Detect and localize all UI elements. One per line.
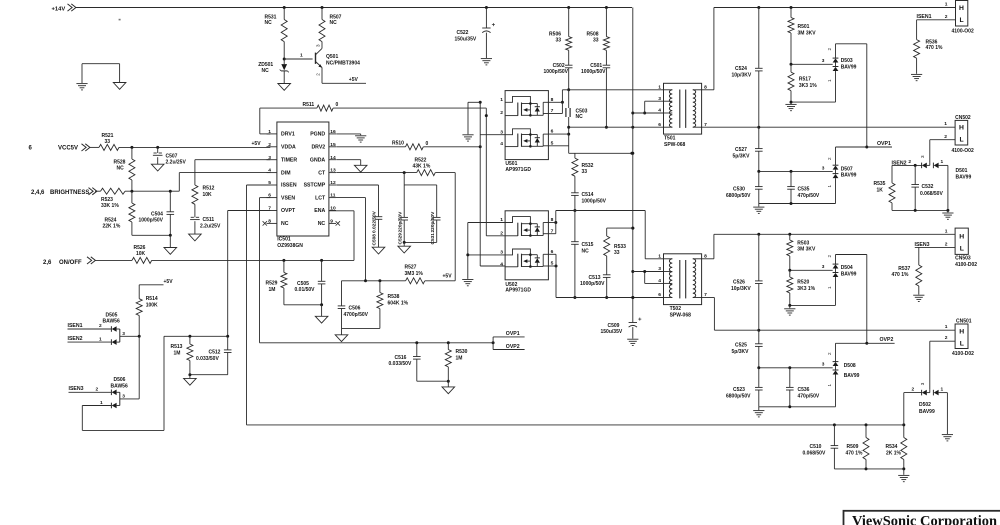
svg-text:DRV2: DRV2: [311, 145, 325, 151]
svg-text:604K 1%: 604K 1%: [388, 301, 409, 307]
wire CT pin 13: [336, 171, 417, 174]
wire sense network bottom: [834, 467, 905, 474]
net label ISEN2 line: [892, 159, 922, 167]
svg-text:150u/35V: 150u/35V: [601, 329, 623, 335]
svg-text:3: 3: [822, 362, 825, 368]
svg-text:C513: C513: [589, 275, 601, 281]
wire CT to R527 riser: [435, 173, 455, 281]
capacitor C504: [139, 191, 175, 235]
svg-text:10K: 10K: [203, 192, 213, 198]
svg-text:2: 2: [827, 157, 832, 160]
svg-text:2: 2: [945, 335, 948, 341]
svg-text:8: 8: [268, 219, 271, 225]
svg-text:2,6: 2,6: [43, 260, 52, 266]
connector CN503: [945, 228, 978, 268]
svg-text:6800p/50V: 6800p/50V: [726, 394, 751, 400]
svg-text:BAV99: BAV99: [841, 65, 857, 71]
svg-text:L: L: [960, 17, 964, 24]
svg-text:10: 10: [330, 206, 336, 212]
svg-text:T502: T502: [670, 306, 682, 312]
wire T501 pin7 line to CN502: [702, 126, 956, 129]
svg-text:1: 1: [300, 53, 303, 59]
svg-text:L: L: [960, 246, 964, 253]
svg-text:220p/50V: 220p/50V: [397, 211, 403, 233]
svg-text:R537: R537: [898, 266, 910, 272]
wire U502 drain1 rail: [548, 211, 645, 234]
svg-text:3: 3: [920, 155, 925, 158]
wire DIM to brightness node: [179, 173, 270, 192]
ground chassis (C507): [151, 164, 164, 171]
svg-text:1000p/50V: 1000p/50V: [580, 281, 605, 287]
wire R532 top rail: [569, 152, 634, 155]
svg-text:C535: C535: [798, 186, 810, 192]
svg-text:100K: 100K: [146, 303, 158, 309]
wire D502 pin2 from sense rail: [904, 386, 922, 425]
svg-text:R503: R503: [797, 240, 809, 246]
svg-text:2K 1%: 2K 1%: [886, 451, 902, 457]
svg-text:2: 2: [945, 14, 948, 20]
ground earth (PGND): [355, 136, 366, 142]
svg-text:BAV99: BAV99: [841, 271, 857, 277]
resistor R501: [788, 8, 816, 65]
svg-text:SSTCMP: SSTCMP: [304, 183, 326, 189]
no-connect X pin 8: [263, 221, 267, 225]
wire DRV2 to U501/U502 gates: [423, 101, 505, 266]
svg-text:3M 3KV: 3M 3KV: [797, 247, 816, 253]
svg-text:4100-O02: 4100-O02: [952, 29, 974, 35]
svg-text:OVP2: OVP2: [506, 344, 520, 350]
svg-text:SPW-068: SPW-068: [670, 312, 692, 318]
wire DRV1 from pin 1: [260, 108, 317, 134]
svg-text:C514: C514: [582, 192, 594, 198]
svg-text:9: 9: [330, 219, 333, 225]
svg-text:15: 15: [330, 142, 336, 148]
svg-text:4700p/50V: 4700p/50V: [344, 312, 369, 318]
svg-text:BRIGHTNESS: BRIGHTNESS: [50, 190, 89, 196]
svg-text:4100-D02: 4100-D02: [955, 262, 977, 268]
svg-text:IC501: IC501: [277, 236, 291, 242]
wire ISSEN trunk: [247, 185, 271, 425]
svg-text:GNDA: GNDA: [310, 157, 326, 163]
svg-text:3K3 1%: 3K3 1%: [797, 286, 815, 292]
svg-text:ON/OFF: ON/OFF: [59, 260, 82, 266]
resistor R512: [192, 160, 215, 218]
svg-text:C510: C510: [810, 444, 822, 450]
resistor R528: [114, 147, 135, 191]
svg-text:C524: C524: [735, 66, 747, 72]
svg-text:C504: C504: [151, 211, 163, 217]
svg-text:1: 1: [658, 84, 661, 90]
capacitor C525: [732, 330, 763, 368]
svg-text:470 1%: 470 1%: [892, 272, 910, 278]
svg-text:1000p/50V: 1000p/50V: [581, 69, 606, 75]
wire U501 drain jog: [548, 90, 568, 104]
svg-text:OVP2: OVP2: [880, 337, 894, 343]
svg-text:C512: C512: [209, 349, 221, 355]
wire D506 anode loop: [82, 336, 164, 430]
svg-text:C527: C527: [735, 147, 747, 153]
svg-text:470 1%: 470 1%: [926, 45, 944, 51]
ground chassis (C506): [335, 335, 348, 342]
resistor R510: [392, 141, 429, 150]
wire OVPT trunk: [228, 211, 271, 337]
svg-text:1M: 1M: [456, 356, 463, 362]
svg-text:R530: R530: [456, 349, 468, 355]
connector CN501: [945, 318, 974, 357]
svg-text:R520: R520: [797, 280, 809, 286]
svg-text:2: 2: [500, 230, 503, 236]
svg-text:3: 3: [316, 44, 321, 47]
svg-text:3M 3KV: 3M 3KV: [798, 30, 817, 36]
svg-text:C516: C516: [395, 355, 407, 361]
svg-text:2: 2: [827, 48, 832, 51]
svg-text:ISEN1: ISEN1: [917, 14, 932, 20]
wire LCT node rail: [342, 279, 406, 306]
svg-text:5p/3KV: 5p/3KV: [732, 349, 750, 355]
svg-text:10p/3KV: 10p/3KV: [731, 286, 751, 292]
capacitor C526: [731, 234, 763, 330]
wire D501 pin1 drop: [947, 165, 949, 210]
svg-text:2: 2: [500, 110, 503, 116]
wire HV top line (T501 sec to CN): [714, 6, 956, 9]
net label ON/OFF input: [43, 257, 95, 266]
svg-text:ViewSonic Corporation: ViewSonic Corporation: [852, 514, 998, 525]
resistor R517: [788, 64, 817, 104]
svg-text:+14V: +14V: [52, 6, 66, 12]
wire D508 pin1 to cap bottom: [759, 375, 836, 411]
ground earth (U501 sources): [462, 135, 473, 141]
net label OVP1: [867, 141, 892, 147]
op-amp U IC501 OZ9938GN controller: [267, 122, 337, 249]
svg-text:1: 1: [99, 336, 102, 342]
wire T502 pin7 riser to CN501 line: [702, 298, 715, 331]
svg-text:NC: NC: [265, 20, 273, 26]
svg-text:R533: R533: [614, 244, 626, 250]
wire R513-C512 bottom: [188, 373, 227, 378]
wire TIMER to R512: [195, 159, 270, 161]
svg-text:1: 1: [941, 386, 944, 392]
svg-text:2.2u/25V: 2.2u/25V: [166, 160, 187, 166]
diode D506 BAW56: [69, 377, 140, 408]
svg-text:1: 1: [500, 97, 503, 103]
svg-text:C501: C501: [590, 63, 602, 69]
svg-text:L: L: [960, 137, 964, 144]
svg-text:TIMER: TIMER: [281, 157, 297, 163]
net label OVP1 stub: [493, 331, 524, 343]
ground chassis (ZD501): [278, 84, 291, 91]
capacitor C524: [732, 8, 763, 128]
svg-text:1: 1: [945, 228, 948, 234]
resistor R520: [787, 270, 816, 305]
resistor R526: [132, 245, 152, 264]
capacitor C505: [295, 260, 326, 304]
svg-text:3: 3: [500, 129, 503, 135]
wire BRIGHTNESS to R523: [95, 190, 101, 192]
svg-text:1M: 1M: [269, 287, 276, 293]
ground earth (U502 sources): [462, 280, 473, 286]
svg-text:14: 14: [330, 155, 336, 161]
svg-text:1000p/50V: 1000p/50V: [544, 69, 569, 75]
wire R527 to +5V riser: [425, 273, 455, 280]
svg-text:R513: R513: [171, 344, 183, 350]
capacitor C502: [544, 63, 573, 91]
svg-text:3: 3: [822, 58, 825, 64]
wire VCC5V rail to VDDA: [119, 141, 270, 149]
resistor R514: [136, 296, 158, 336]
wire D502 pin1 drop: [946, 393, 948, 434]
svg-text:3: 3: [122, 331, 125, 337]
svg-text:33: 33: [555, 38, 561, 44]
wire T501 pin6 line: [569, 126, 664, 129]
svg-text:Q501: Q501: [326, 54, 338, 60]
diode D503 BAV99: [827, 48, 857, 83]
net label VCC5V input: [29, 144, 90, 152]
svg-text:13: 13: [330, 168, 336, 174]
svg-text:D508: D508: [844, 363, 856, 369]
no-connect X pin 9: [336, 221, 340, 225]
transistor Q501: [316, 42, 361, 84]
resistor R507: [319, 8, 342, 42]
wire CN502 L to D501 tap: [920, 140, 955, 163]
svg-text:NC: NC: [281, 221, 289, 227]
capacitor C501: [581, 63, 610, 129]
resistor R511: [303, 102, 339, 111]
svg-text:0: 0: [336, 102, 339, 108]
transistor U502 AP9971GD dual MOSFET: [500, 211, 553, 294]
svg-text:NC: NC: [117, 165, 125, 171]
wire ISSEN sense rail: [247, 423, 906, 426]
svg-text:C511: C511: [203, 217, 215, 223]
wire C506-R538 bottom: [342, 328, 380, 334]
resistor R532: [572, 153, 594, 193]
svg-text:NC: NC: [318, 221, 326, 227]
ground earth (R536): [911, 74, 922, 80]
svg-text:470 1%: 470 1%: [846, 451, 864, 457]
svg-text:470p/50V: 470p/50V: [798, 193, 820, 199]
connector CN504 output (top): [945, 1, 974, 35]
node base Q501: [283, 53, 313, 61]
svg-text:4100-D02: 4100-D02: [952, 351, 974, 357]
svg-text:33: 33: [105, 139, 111, 145]
svg-text:ZD501: ZD501: [258, 62, 273, 68]
wire D508 common: [757, 362, 832, 370]
svg-text:3M3 1%: 3M3 1%: [405, 271, 424, 277]
connector CN502: [944, 115, 974, 154]
net label ISEN3 line: [915, 242, 956, 248]
svg-text:33: 33: [582, 169, 588, 175]
svg-text:4: 4: [500, 141, 503, 147]
capacitor C514: [571, 192, 607, 212]
wire D508 pin2 to OVP2 node: [836, 342, 869, 362]
svg-text:2: 2: [316, 73, 321, 76]
svg-text:3: 3: [822, 165, 825, 171]
wire T501 pin8 riser: [702, 8, 714, 90]
wire R533 top rail: [607, 227, 635, 230]
capacitor C511: [190, 217, 221, 234]
net label +5V pullup: [139, 279, 173, 299]
ground chassis (C504): [164, 248, 177, 255]
wire C516-R530 bottom: [417, 380, 450, 387]
svg-text:1: 1: [827, 286, 832, 289]
svg-text:D501: D501: [956, 168, 968, 174]
svg-text:C530: C530: [733, 186, 745, 192]
svg-text:0: 0: [426, 141, 429, 147]
svg-text:2.2u/25V: 2.2u/25V: [200, 223, 221, 229]
resistor R524: [103, 191, 135, 235]
wire ISEN2 bottom rail: [892, 209, 949, 213]
wire U502 drain2 column: [548, 254, 663, 299]
resistor R529: [266, 260, 287, 304]
zener diode ZD501: [258, 59, 289, 84]
svg-text:10p/3KV: 10p/3KV: [732, 72, 752, 78]
svg-text:150u/35V: 150u/35V: [455, 36, 477, 42]
svg-text:R511: R511: [303, 102, 315, 108]
svg-text:C529: C529: [397, 233, 403, 245]
svg-text:R501: R501: [798, 24, 810, 30]
wire D503 pin1 to ground: [790, 71, 836, 104]
net label +14V input: [52, 4, 76, 13]
svg-text:VDDA: VDDA: [281, 145, 296, 151]
resistor R509: [846, 425, 870, 469]
svg-text:1: 1: [658, 253, 661, 259]
svg-text:2,4,6: 2,4,6: [31, 190, 45, 196]
ground chassis (C511): [189, 234, 202, 241]
wire SSTCMP pin 12: [336, 185, 378, 217]
capacitor C522: [455, 8, 495, 59]
wire D504 common: [788, 264, 832, 272]
wire CN501 H line: [714, 329, 955, 332]
wire +14V center column: [631, 112, 634, 323]
svg-text:AP9971GD: AP9971GD: [505, 167, 531, 173]
svg-text:1M: 1M: [174, 351, 181, 357]
ground earth (R537): [913, 295, 924, 301]
svg-text:+5V: +5V: [349, 77, 359, 83]
svg-text:SPW-068: SPW-068: [664, 142, 686, 148]
capacitor C527: [733, 127, 763, 171]
resistor R513: [171, 336, 193, 374]
svg-text:LCT: LCT: [315, 195, 326, 201]
transistor U501 AP9971GD dual MOSFET: [500, 91, 553, 173]
ground earth (R517): [785, 104, 796, 110]
wire HV mid line (T502 sec to CN503): [714, 233, 955, 236]
svg-text:220p/50V: 220p/50V: [430, 211, 436, 233]
svg-text:11: 11: [330, 193, 335, 199]
ground earth (C509): [627, 339, 638, 345]
wire VCC5V to R521: [90, 146, 99, 148]
svg-text:BAV99: BAV99: [844, 373, 860, 379]
svg-text:T501: T501: [664, 136, 676, 142]
svg-text:2: 2: [268, 142, 271, 148]
svg-text:0.022/50V: 0.022/50V: [372, 210, 378, 233]
wire D507 pin2 to OVP1 node: [836, 146, 869, 166]
net label BRIGHTNESS input: [31, 188, 97, 197]
svg-text:ISEN2: ISEN2: [68, 336, 83, 342]
capacitor C510: [803, 425, 839, 469]
svg-text:1: 1: [945, 324, 948, 330]
svg-text:OZ9938GN: OZ9938GN: [277, 243, 303, 249]
svg-text:OVP1: OVP1: [877, 141, 891, 147]
title block box: [844, 511, 1000, 525]
ground earth (bracket left): [76, 84, 87, 90]
resistor R522: [413, 157, 436, 175]
ground earth (R534): [898, 475, 909, 481]
ground earth (D502): [942, 435, 953, 441]
capacitor C535: [787, 171, 820, 203]
svg-text:H: H: [959, 5, 964, 12]
resistor R508: [587, 8, 610, 66]
svg-text:4100-O02: 4100-O02: [952, 148, 974, 154]
svg-text:2: 2: [96, 387, 99, 393]
resistor R535: [874, 165, 896, 210]
wire T501 pin3-4 tie: [633, 101, 664, 114]
svg-text:470p/50V: 470p/50V: [798, 394, 820, 400]
ground earth (C522): [481, 59, 492, 65]
svg-text:33: 33: [614, 250, 620, 256]
svg-text:NC: NC: [330, 20, 338, 26]
svg-text:R512: R512: [203, 185, 215, 191]
svg-text:3: 3: [122, 394, 125, 400]
svg-text:1: 1: [827, 79, 832, 82]
svg-text:5p/3KV: 5p/3KV: [733, 153, 751, 159]
resistor R527: [405, 265, 425, 284]
svg-text:C508: C508: [372, 234, 378, 246]
resistor R531: [265, 8, 288, 60]
resistor R536: [914, 20, 943, 74]
svg-text:R534: R534: [886, 444, 898, 450]
svg-text:0.033/50V: 0.033/50V: [389, 361, 412, 367]
transformer T501 SPW-068: [658, 83, 707, 148]
svg-text:0.033/50V: 0.033/50V: [196, 356, 219, 362]
svg-text:1K: 1K: [877, 188, 884, 194]
wire U501 source ground riser: [468, 102, 480, 134]
svg-text:12: 12: [330, 180, 336, 186]
capacitor C531: [430, 211, 441, 245]
svg-text:2: 2: [944, 134, 947, 140]
svg-text:BAV99: BAV99: [841, 173, 857, 179]
svg-text:R517: R517: [799, 77, 811, 83]
svg-text:2: 2: [99, 323, 102, 329]
svg-text:R532: R532: [582, 163, 594, 169]
svg-text:CN501: CN501: [956, 318, 972, 324]
svg-text:C526: C526: [733, 280, 745, 286]
capacitor C529: [397, 185, 408, 245]
wire VSEN sense line: [260, 341, 495, 344]
svg-text:R506: R506: [549, 31, 561, 37]
svg-text:R509: R509: [847, 444, 859, 450]
svg-text:1: 1: [827, 384, 832, 387]
svg-text:33K 1%: 33K 1%: [101, 203, 119, 209]
svg-text:R527: R527: [405, 265, 417, 271]
wire CT cap pair top: [404, 173, 437, 218]
wire D503 common: [790, 58, 833, 66]
svg-text:CN503: CN503: [955, 256, 971, 262]
svg-text:1: 1: [945, 2, 948, 8]
svg-text:43K 1%: 43K 1%: [413, 163, 431, 169]
diode D507 BAV99: [827, 157, 857, 188]
svg-text:NC: NC: [576, 114, 584, 120]
capacitor C508: [372, 210, 383, 247]
ground chassis (bracket right): [113, 83, 126, 90]
svg-text:VSEN: VSEN: [281, 195, 295, 201]
capacitor C512: [196, 336, 232, 374]
capacitor C532: [911, 165, 943, 210]
svg-text:6: 6: [658, 292, 661, 298]
ground chassis (C505): [315, 316, 328, 323]
capacitor C506: [338, 305, 369, 328]
svg-text:2: 2: [912, 386, 915, 392]
wire D507 common: [757, 165, 832, 173]
svg-text:22K 1%: 22K 1%: [103, 224, 121, 230]
